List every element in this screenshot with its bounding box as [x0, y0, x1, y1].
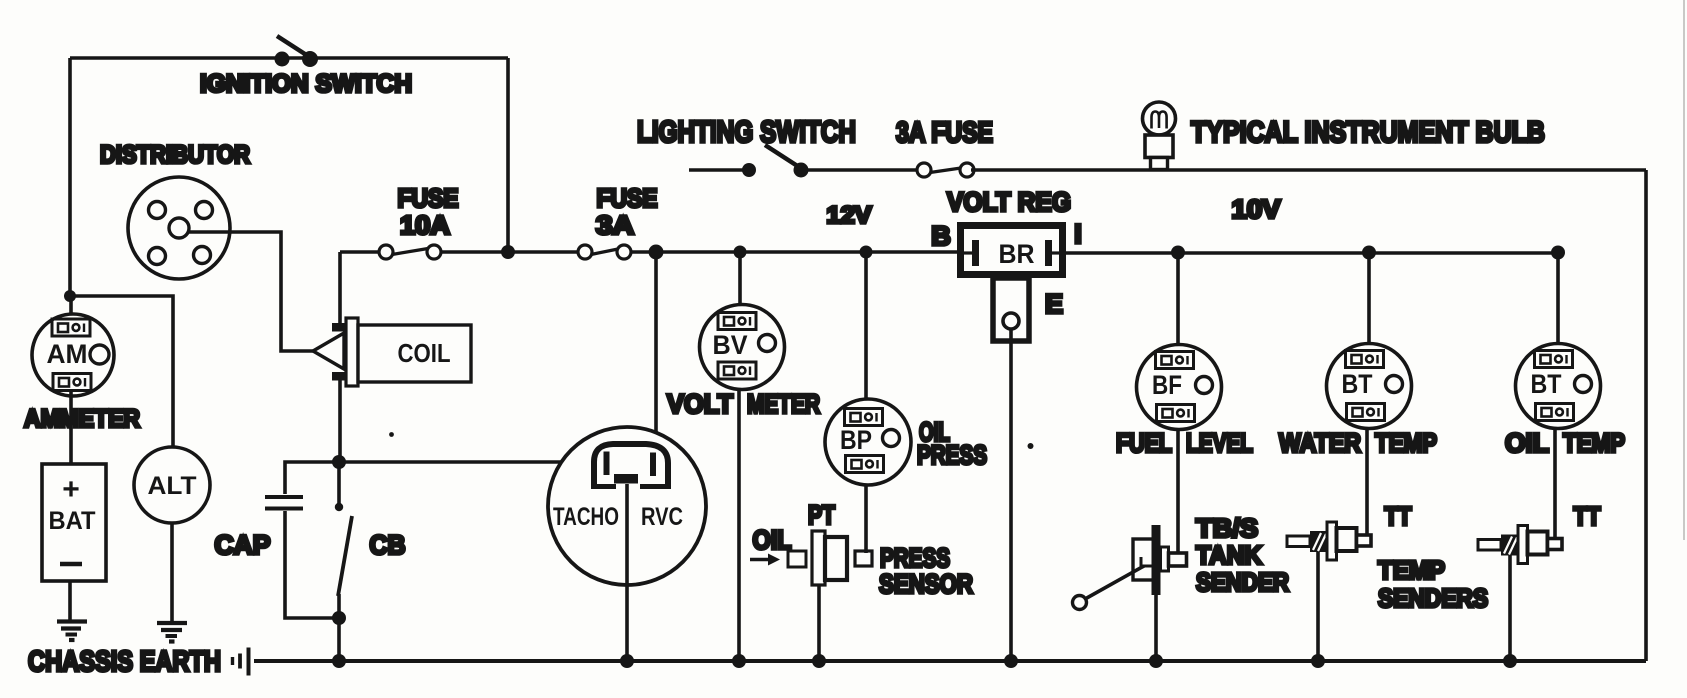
svg-text:+: + — [62, 473, 80, 506]
svg-text:BP: BP — [840, 425, 872, 455]
svg-text:VOLT: VOLT — [667, 389, 733, 419]
node: oil sender earth — [1503, 654, 1517, 668]
svg-text:BAT: BAT — [49, 507, 96, 535]
svg-text:10V: 10V — [1232, 194, 1282, 224]
wire right vertical from ignition switch down to fuse bus — [506, 58, 510, 252]
ink speck — [389, 432, 394, 437]
wire chassis earth bus — [254, 659, 1646, 663]
wire bus to oil temp gauge — [1556, 252, 1560, 345]
label FUEL LEVEL — [1116, 428, 1253, 458]
wire tachometer to earth bus — [625, 484, 629, 661]
svg-text:TEMP: TEMP — [1375, 428, 1437, 458]
svg-text:BT: BT — [1531, 369, 1562, 399]
label OIL PRESS — [917, 417, 987, 470]
svg-text:AMMETER: AMMETER — [24, 405, 140, 433]
wire junction to capacitor — [285, 462, 339, 494]
node A: junction ammeter/alternator — [64, 290, 76, 302]
label FUSE 3A — [596, 183, 658, 240]
oil inlet arrow — [750, 554, 780, 566]
svg-text:PRESS: PRESS — [917, 440, 987, 470]
svg-text:BR: BR — [999, 239, 1035, 269]
wire oil temp gauge to sender — [1553, 429, 1557, 542]
svg-text:SENSOR: SENSOR — [879, 569, 973, 599]
wire regulator E to earth bus — [1009, 329, 1013, 661]
lighting switch SW2 — [742, 145, 809, 178]
svg-text:TEMP: TEMP — [1378, 555, 1445, 585]
label CAP — [215, 530, 271, 560]
svg-text:TACHO: TACHO — [553, 503, 619, 531]
svg-text:TT: TT — [1385, 501, 1412, 531]
svg-text:3A: 3A — [596, 210, 634, 240]
node: oil pressure tap — [860, 246, 873, 259]
label VOLT METER — [667, 389, 820, 419]
node: voltmeter tap — [734, 246, 747, 259]
voltmeter gauge BV — [700, 305, 785, 390]
pressure sensor PT — [788, 531, 872, 585]
water temp gauge BT — [1327, 344, 1412, 429]
wire main 12V bus left section — [340, 250, 957, 254]
label WATER TEMP — [1279, 428, 1437, 458]
label TYPICAL INSTRUMENT BULB — [1191, 116, 1545, 149]
node: coil/cap/cb/tacho junction — [332, 455, 346, 469]
svg-text:OIL: OIL — [1505, 428, 1549, 458]
instrument bulb LP1 — [1143, 102, 1176, 170]
svg-text:SENDERS: SENDERS — [1378, 583, 1488, 613]
svg-text:OIL: OIL — [753, 525, 792, 555]
wire battery to ground — [68, 581, 72, 620]
wire alternator to ground — [170, 523, 174, 622]
wire fuel gauge to tank sender — [1176, 430, 1180, 556]
svg-text:TT: TT — [1574, 501, 1601, 531]
wire tank sender to earth bus — [1154, 595, 1158, 661]
regulator earth tab E — [993, 278, 1029, 341]
svg-text:3A FUSE: 3A FUSE — [896, 117, 993, 149]
svg-text:TANK: TANK — [1196, 540, 1262, 570]
svg-text:FUEL: FUEL — [1116, 428, 1172, 458]
ground (battery) — [57, 622, 87, 641]
wire fuse to instrument bulb and right rail — [971, 168, 1646, 172]
tachometer TACHO/RVC — [548, 427, 706, 585]
node: cb earth — [332, 654, 346, 668]
wire junction to ammeter top — [69, 296, 73, 320]
label CHASSIS EARTH — [28, 646, 221, 678]
wire oil pressure gauge to sensor — [864, 485, 868, 553]
wire bus to oil pressure gauge — [864, 252, 868, 400]
wire junction to tacho — [339, 460, 594, 464]
pin I label — [1074, 219, 1082, 249]
voltage regulator BR — [961, 226, 1063, 275]
svg-text:I: I — [1074, 219, 1082, 249]
wire distributor to coil primary — [189, 232, 313, 351]
wire 3A fuse node down to tachometer — [654, 252, 658, 448]
label AMMETER — [24, 405, 140, 433]
wire oil sender to earth bus — [1508, 556, 1512, 662]
label LIGHTING SWITCH — [637, 114, 856, 149]
ignition coil assembly — [313, 318, 471, 386]
oil pressure gauge BP — [825, 399, 911, 485]
node: tacho feed — [649, 245, 664, 260]
wire lighting switch to 3A fuse — [801, 168, 920, 172]
label 3A FUSE — [896, 117, 993, 149]
wire voltmeter to earth bus — [737, 390, 741, 662]
node: ignition feed joins bus — [501, 245, 515, 259]
svg-text:CAP: CAP — [215, 530, 271, 560]
node: tacho earth — [620, 654, 634, 668]
scan edge artifact — [1683, 0, 1685, 540]
svg-text:FUSE: FUSE — [398, 183, 459, 213]
label PT — [808, 500, 835, 530]
node: fuel gauge tap — [1171, 246, 1185, 260]
node: voltmeter earth — [732, 654, 746, 668]
svg-text:METER: METER — [747, 389, 820, 419]
svg-text:LIGHTING SWITCH: LIGHTING SWITCH — [637, 114, 856, 149]
ignition switch SW1 — [275, 36, 319, 67]
contact breaker CB — [335, 462, 352, 618]
svg-text:FUSE: FUSE — [597, 183, 658, 213]
ammeter gauge AM — [32, 314, 114, 396]
wire 10V bus — [1066, 251, 1558, 255]
svg-text:BT: BT — [1342, 369, 1373, 399]
svg-text:BF: BF — [1152, 370, 1182, 400]
label 10V — [1232, 194, 1282, 224]
ground (alternator) — [157, 623, 187, 642]
svg-text:10A: 10A — [400, 210, 450, 240]
node: regulator earth — [1004, 654, 1018, 668]
tank sender TB/S — [1073, 525, 1187, 610]
svg-text:DISTRIBUTOR: DISTRIBUTOR — [100, 141, 250, 169]
distributor — [128, 177, 230, 279]
svg-text:ALT: ALT — [148, 472, 197, 500]
fuel level gauge BF — [1137, 345, 1222, 430]
svg-text:PT: PT — [808, 500, 835, 530]
wire sensor to earth bus — [817, 585, 821, 661]
pin B label — [931, 221, 951, 251]
wire capacitor down and across — [285, 511, 339, 618]
label VOLT REG — [947, 187, 1071, 217]
label CB — [370, 530, 406, 560]
label TB/S TANK SENDER — [1196, 513, 1289, 597]
wire bus to fuel gauge — [1176, 252, 1180, 346]
svg-text:AM: AM — [47, 339, 88, 369]
wire junction to alternator — [70, 296, 173, 447]
node: sensor earth — [812, 654, 826, 668]
wire ammeter to battery — [69, 391, 73, 464]
alternator ALT — [134, 447, 210, 523]
wire water temp gauge to sender — [1365, 429, 1369, 542]
label TT (oil) — [1574, 501, 1601, 531]
wire lighting switch feed — [689, 168, 749, 172]
node: water sender earth — [1311, 654, 1325, 668]
svg-text:IGNITION SWITCH: IGNITION SWITCH — [200, 70, 412, 98]
label TEMP SENDERS — [1378, 555, 1488, 613]
ink speck — [1028, 443, 1034, 449]
svg-text:BV: BV — [713, 330, 748, 360]
label PRESS SENSOR — [879, 543, 973, 599]
fuse F2 3A — [578, 245, 631, 259]
capacitor CAP — [265, 497, 303, 509]
svg-text:RVC: RVC — [641, 503, 683, 531]
svg-text:LEVEL: LEVEL — [1186, 428, 1253, 458]
label OIL (inlet) — [753, 525, 792, 555]
svg-text:B: B — [931, 221, 951, 251]
fuse F1 10A — [379, 245, 441, 259]
svg-text:CB: CB — [370, 530, 406, 560]
wire bus to water temp gauge — [1367, 252, 1371, 345]
label OIL TEMP — [1505, 428, 1625, 458]
wire coil - terminal down to CB node — [338, 380, 342, 462]
wire bus down to coil + terminal — [338, 252, 342, 323]
svg-text:COIL: COIL — [398, 338, 451, 368]
label IGNITION SWITCH — [200, 70, 412, 98]
wire water sender to earth bus — [1316, 552, 1320, 661]
svg-text:E: E — [1045, 289, 1063, 319]
label 12V — [827, 202, 872, 229]
node: water temp tap — [1362, 246, 1376, 260]
svg-text:12V: 12V — [827, 202, 872, 229]
node: tank sender earth — [1149, 654, 1163, 668]
battery BAT — [42, 464, 106, 581]
wire left vertical from ignition to ammeter node — [68, 58, 72, 296]
label TT (water) — [1385, 501, 1412, 531]
svg-text:TB/S: TB/S — [1196, 513, 1258, 543]
label FUSE 10A — [398, 183, 459, 240]
wire bus to voltmeter — [738, 252, 742, 306]
pin E label — [1045, 289, 1063, 319]
oil temp gauge BT — [1516, 344, 1601, 429]
svg-text:SENDER: SENDER — [1196, 567, 1289, 597]
node: oil temp tap — [1551, 246, 1565, 260]
svg-text:TEMP: TEMP — [1563, 428, 1625, 458]
wire right rail down to earth bus — [1644, 170, 1648, 661]
node: cap/cb bottom junction — [332, 611, 346, 625]
svg-text:VOLT REG: VOLT REG — [947, 187, 1071, 217]
wire cb bottom junction to earth bus — [337, 618, 341, 661]
water temp sender TT — [1287, 522, 1371, 560]
svg-text:CHASSIS EARTH: CHASSIS EARTH — [28, 646, 221, 678]
chassis earth symbol — [233, 648, 249, 676]
fuse F3 3A (lighting) — [917, 163, 974, 177]
svg-text:WATER: WATER — [1279, 428, 1361, 458]
oil temp sender TT — [1478, 526, 1562, 564]
svg-text:TYPICAL INSTRUMENT BULB: TYPICAL INSTRUMENT BULB — [1191, 116, 1545, 149]
wire ignition switch feed (top run) — [70, 56, 508, 60]
label DISTRIBUTOR — [100, 141, 250, 169]
